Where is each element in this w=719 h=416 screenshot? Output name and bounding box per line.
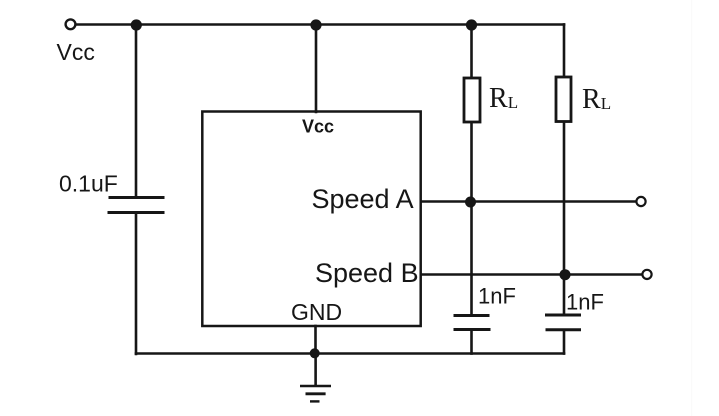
wire R1 top	[470, 25, 473, 78]
wire cap2 to bottom rail	[563, 330, 566, 354]
svg-text:0.1uF: 0.1uF	[59, 171, 118, 197]
node junction top-right	[466, 19, 477, 30]
svg-text:Vcc: Vcc	[57, 39, 95, 65]
svg-text:1nF: 1nF	[478, 284, 516, 309]
wire right rail drop	[563, 25, 566, 78]
resistor RL1	[464, 78, 480, 122]
capacitor C2 1nF	[454, 316, 491, 330]
svg-text:Speed B: Speed B	[315, 258, 419, 288]
node junction top-left	[131, 19, 142, 30]
svg-text:Speed A: Speed A	[312, 184, 414, 214]
wire Speed A output	[421, 200, 636, 203]
wire cap1 to bottom rail	[470, 330, 473, 354]
wire R2 bottom to cap	[563, 122, 566, 315]
wire GND pin	[314, 326, 317, 354]
IC U1 box	[202, 112, 420, 327]
ground	[300, 354, 331, 402]
wire Speed B output	[421, 273, 642, 276]
resistor RL2	[556, 77, 571, 122]
svg-text:RL: RL	[489, 83, 518, 114]
wire top rail	[76, 23, 564, 26]
svg-text:1nF: 1nF	[566, 290, 604, 315]
terminal Vcc input	[66, 19, 76, 29]
wire left vertical upper	[135, 25, 138, 197]
wire Vcc pin to IC	[315, 25, 318, 112]
node junction Speed A	[465, 197, 476, 208]
terminal output A	[636, 197, 645, 206]
svg-text:RL: RL	[582, 84, 611, 115]
node junction Speed B	[560, 269, 571, 280]
wire bottom rail	[136, 352, 564, 355]
svg-text:Vcc: Vcc	[302, 116, 334, 136]
wire left vertical lower	[135, 213, 138, 354]
capacitor C1 0.1uF	[108, 198, 165, 213]
svg-text:GND: GND	[291, 299, 342, 325]
faint page edge	[691, 0, 692, 416]
node junction top-middle	[310, 19, 321, 30]
node junction ground	[310, 348, 320, 358]
capacitor C3 1nF	[545, 315, 581, 330]
terminal output B	[642, 270, 651, 279]
wire R1 bottom to cap	[470, 122, 473, 315]
